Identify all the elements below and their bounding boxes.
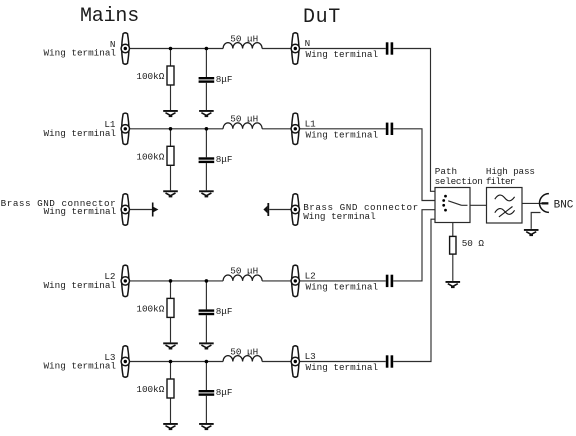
- capacitor 8uF (L1): [199, 157, 215, 163]
- wire L3 bus (Mains): [125, 361, 223, 363]
- svg-text:Wing terminal: Wing terminal: [306, 362, 379, 373]
- svg-text:Wing terminal: Wing terminal: [306, 130, 379, 141]
- ground (8uF L2): [199, 342, 214, 349]
- svg-text:L3: L3: [305, 351, 316, 362]
- svg-text:Wing terminal: Wing terminal: [43, 48, 116, 59]
- wire L1 bus (Mains): [125, 128, 223, 130]
- ground (8uF L3): [199, 423, 214, 430]
- wire Mains brass GND terminal to chassis pin: [125, 209, 152, 211]
- resistor 100k L2: [167, 298, 174, 317]
- wire 8uF capacitor L3 to bus: [205, 362, 207, 391]
- inductor 50uH (L1): [223, 123, 262, 129]
- capacitor coupling (L2): [386, 275, 393, 287]
- wing terminal L2 (Mains): [121, 265, 129, 296]
- wire DuT N terminal to coupling cap: [295, 48, 386, 50]
- wing terminal L2 (DuT): [291, 265, 299, 296]
- ground (BNC shield): [524, 229, 539, 236]
- svg-text:Wing terminal: Wing terminal: [43, 128, 116, 139]
- svg-text:Wing terminal: Wing terminal: [43, 361, 116, 372]
- wing terminal N (Mains): [121, 33, 129, 64]
- wire inductor to L3 DuT terminal: [262, 361, 295, 363]
- svg-text:50 μH: 50 μH: [230, 266, 258, 277]
- wing terminal L1 (Mains): [121, 113, 129, 144]
- wire inductor to N DuT terminal: [262, 48, 295, 50]
- wire 50 ohm resistor to ground: [452, 254, 454, 281]
- wire inductor to L2 DuT terminal: [262, 280, 295, 282]
- wing terminal brass GND (DuT): [291, 194, 299, 225]
- ground (100k L3): [163, 423, 178, 430]
- wire 100k resistor N to bus: [170, 49, 172, 67]
- svg-text:N: N: [305, 38, 311, 49]
- svg-text:Wing terminal: Wing terminal: [43, 280, 116, 291]
- wing terminal brass GND (Mains): [121, 194, 129, 225]
- resistor 100k N: [167, 66, 174, 85]
- wire coupling cap L3 to path selection box: [393, 219, 435, 361]
- svg-text:8μF: 8μF: [216, 306, 233, 317]
- capacitor 8uF (L3): [199, 390, 215, 396]
- capacitor coupling (N): [386, 42, 393, 54]
- svg-text:selection: selection: [435, 176, 483, 187]
- svg-text:8μF: 8μF: [216, 74, 233, 85]
- junction N-8uF: [205, 47, 209, 51]
- wire high pass filter to BNC: [522, 202, 542, 204]
- svg-text:50 μH: 50 μH: [230, 114, 258, 125]
- wire DuT L2 terminal to coupling cap: [295, 280, 386, 282]
- junction L2-8uF: [205, 279, 209, 283]
- svg-text:Mains: Mains: [80, 5, 139, 28]
- junction N-100k: [169, 47, 173, 51]
- wire coupling cap L2 to path selection box: [393, 210, 435, 281]
- svg-text:100kΩ: 100kΩ: [136, 71, 164, 82]
- wing terminal N (DuT): [291, 33, 299, 64]
- svg-text:L1: L1: [305, 118, 317, 129]
- ground (100k L1): [163, 190, 178, 197]
- capacitor coupling (L1): [386, 123, 393, 135]
- wire chassis pin to DuT brass GND terminal: [269, 209, 295, 211]
- label Path selection: [435, 166, 483, 187]
- high pass filter box: [487, 188, 523, 224]
- wire 8uF capacitor N to bus: [205, 49, 207, 78]
- ground (100k N): [163, 110, 178, 117]
- svg-text:100kΩ: 100kΩ: [136, 304, 164, 315]
- junction L3-8uF: [205, 360, 209, 364]
- resistor 100k L3: [167, 379, 174, 398]
- chassis pin (DuT side): [263, 203, 269, 216]
- wire inductor to L1 DuT terminal: [262, 128, 295, 130]
- wing terminal L3 (Mains): [121, 346, 129, 377]
- svg-text:Wing terminal: Wing terminal: [306, 282, 379, 293]
- ground (8uF L1): [199, 190, 214, 197]
- wire path selection to 50 ohm resistor: [452, 223, 454, 237]
- wire BNC shield to ground: [531, 213, 540, 229]
- capacitor coupling (L3): [386, 355, 393, 367]
- wire 100k resistor L3 to bus: [170, 362, 172, 380]
- ground (8uF N): [199, 110, 214, 117]
- switch arm: [448, 201, 467, 206]
- wire 8uF capacitor N to ground: [205, 83, 207, 110]
- svg-text:50 μH: 50 μH: [230, 33, 258, 44]
- junction L1-8uF: [205, 127, 209, 131]
- ground (100k L2): [163, 342, 178, 349]
- svg-text:Wing terminal: Wing terminal: [306, 49, 379, 60]
- wire 100k resistor L2 to ground: [170, 317, 172, 342]
- svg-text:100kΩ: 100kΩ: [136, 384, 164, 395]
- inductor 50uH (L3): [223, 356, 262, 362]
- high pass filter symbol: [495, 195, 515, 217]
- svg-text:Wing terminal: Wing terminal: [303, 211, 376, 222]
- wire 100k resistor N to ground: [170, 85, 172, 110]
- junction L2-100k: [169, 279, 173, 283]
- wire coupling cap L1 to path selection box: [393, 129, 435, 201]
- svg-text:BNC: BNC: [554, 200, 574, 212]
- inductor 50uH (N): [223, 43, 262, 49]
- inductor 50uH (L2): [223, 275, 262, 281]
- wire 8uF capacitor L1 to bus: [205, 129, 207, 158]
- svg-text:filter: filter: [486, 176, 515, 187]
- wire 100k resistor L3 to ground: [170, 398, 172, 423]
- capacitor 8uF (N): [199, 77, 215, 83]
- ground (50 ohm): [446, 281, 461, 288]
- wire coupling cap N to path selection box: [393, 49, 435, 192]
- wire 100k resistor L1 to bus: [170, 129, 172, 147]
- resistor 100k L1: [167, 146, 174, 165]
- svg-text:100kΩ: 100kΩ: [136, 151, 164, 162]
- wire 8uF capacitor L2 to ground: [205, 315, 207, 342]
- wire 8uF capacitor L1 to ground: [205, 163, 207, 190]
- wing terminal L3 (DuT): [291, 346, 299, 377]
- resistor 50 ohm: [450, 236, 456, 254]
- capacitor 8uF (L2): [199, 309, 215, 315]
- svg-text:8μF: 8μF: [216, 154, 233, 165]
- wire path selection to high pass filter: [470, 204, 487, 206]
- svg-text:50 Ω: 50 Ω: [462, 238, 485, 249]
- wire DuT L3 terminal to coupling cap: [295, 361, 386, 363]
- junction L1-100k: [169, 127, 173, 131]
- wire DuT L1 terminal to coupling cap: [295, 128, 386, 130]
- wire 100k resistor L1 to ground: [170, 165, 172, 190]
- svg-text:Wing terminal: Wing terminal: [44, 206, 117, 217]
- BNC connector: [540, 194, 549, 213]
- svg-text:L2: L2: [305, 271, 316, 282]
- path selection box: [435, 188, 470, 223]
- wire 8uF capacitor L2 to bus: [205, 281, 207, 310]
- wing terminal L1 (DuT): [291, 113, 299, 144]
- wire 8uF capacitor L3 to ground: [205, 396, 207, 423]
- wire N bus (Mains): [125, 48, 223, 50]
- svg-text:8μF: 8μF: [216, 387, 233, 398]
- wire L2 bus (Mains): [125, 280, 223, 282]
- label High pass filter: [486, 166, 535, 187]
- svg-text:DuT: DuT: [303, 6, 341, 29]
- svg-text:50 μH: 50 μH: [230, 346, 258, 357]
- junction L3-100k: [169, 360, 173, 364]
- wire 100k resistor L2 to bus: [170, 281, 172, 299]
- chassis pin (Mains side): [152, 203, 159, 217]
- switch contact dots: [442, 195, 447, 212]
